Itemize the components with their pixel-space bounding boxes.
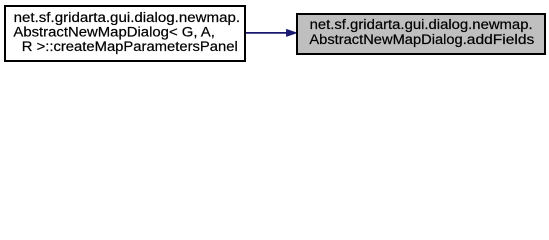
node: current addFields (grey filled box) [297, 14, 545, 54]
node: caller AbstractNewMapDialog::createMapParametersPanel (box) [5, 6, 245, 61]
svg-text:AbstractNewMapDialog< G, A,: AbstractNewMapDialog< G, A, [13, 24, 215, 39]
svg-text:net.sf.gridarta.gui.dialog.new: net.sf.gridarta.gui.dialog.newmap. [14, 10, 241, 25]
svg-text:net.sf.gridarta.gui.dialog.new: net.sf.gridarta.gui.dialog.newmap. [310, 17, 533, 32]
svg-text:R >::createMapParametersPanel: R >::createMapParametersPanel [22, 39, 238, 54]
svg-text:addFields: addFields [467, 32, 535, 47]
edge: call arrow shaft (midnightblue) [246, 32, 287, 34]
svg-text:AbstractNewMapDialog.: AbstractNewMapDialog. [309, 32, 466, 47]
edge: call arrow head [286, 29, 297, 36]
